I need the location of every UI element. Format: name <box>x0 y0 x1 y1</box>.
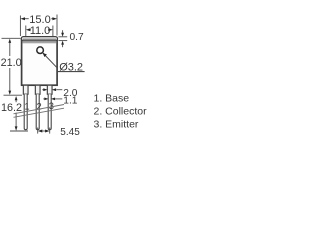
svg-text:16.2: 16.2 <box>1 102 22 114</box>
pin 3 lead shoulder <box>47 85 52 94</box>
pin 1 lead shoulder <box>23 85 28 94</box>
svg-text:Ø3.2: Ø3.2 <box>59 61 83 73</box>
pin 3 lead <box>48 94 51 130</box>
svg-text:2. Collector: 2. Collector <box>94 105 148 117</box>
svg-text:11.0: 11.0 <box>30 25 51 37</box>
dimension 5.45 <box>38 128 50 134</box>
dimension 21.0 <box>2 38 23 95</box>
dimension 0.7 <box>58 30 67 47</box>
dimension 1.1 <box>43 98 62 100</box>
hole leader <box>43 53 58 68</box>
svg-text:0.7: 0.7 <box>70 32 84 43</box>
svg-text:1. Base: 1. Base <box>94 92 130 104</box>
svg-text:3: 3 <box>49 101 54 111</box>
lead break line upper <box>14 105 65 114</box>
body shadow band <box>22 41 56 43</box>
svg-text:21.0: 21.0 <box>1 57 22 69</box>
dimension 2.0 <box>42 89 62 91</box>
svg-text:3. Emitter: 3. Emitter <box>94 118 139 130</box>
mounting hole <box>37 47 44 54</box>
pin 1 lead <box>24 94 27 130</box>
dimension 16.2 <box>10 100 28 131</box>
svg-text:5.45: 5.45 <box>60 127 80 138</box>
svg-text:1: 1 <box>24 101 29 111</box>
dimension 15.0 <box>20 15 57 37</box>
package body outline <box>22 40 58 85</box>
lead break line lower <box>14 108 65 117</box>
tab rib <box>21 37 57 41</box>
pin 2 lead shoulder <box>35 85 40 94</box>
dimension 11.0 <box>26 26 53 37</box>
tab rib shading <box>23 39 57 41</box>
pin 2 lead <box>36 94 39 130</box>
svg-text:1.1: 1.1 <box>63 96 77 107</box>
